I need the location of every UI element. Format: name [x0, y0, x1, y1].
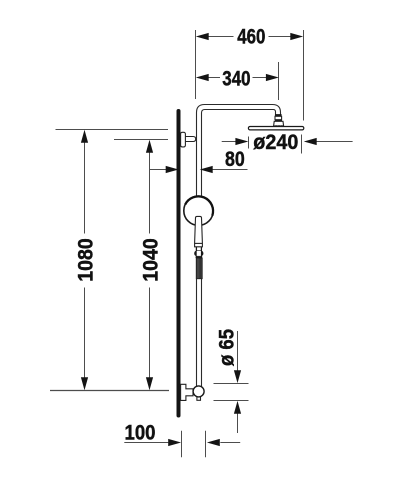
dimension 100: [124, 421, 240, 457]
baseline bottom: [50, 390, 169, 392]
dimension ø65: [216, 329, 242, 433]
dimension 1040: [139, 140, 162, 390]
extension line head right lower (ø240): [301, 135, 303, 154]
hose coupling lower band: [196, 256, 203, 258]
extension line arm right (right of 340): [278, 62, 280, 100]
extension line riser top (left of 460/340): [195, 30, 197, 99]
dimension 80: [149, 148, 248, 173]
hose coupling neck: [196, 247, 201, 251]
wall bar (shower riser rail): [177, 111, 181, 416]
shower head connector nut: [274, 121, 284, 127]
extension line 1040 top: [114, 139, 168, 141]
shower head connector lower band: [275, 120, 282, 122]
extension line valve top (ø65): [214, 383, 249, 385]
svg-text:80: 80: [225, 148, 245, 171]
svg-text:460: 460: [237, 26, 265, 49]
hand shower holder circle: [184, 196, 213, 225]
riser pipe and shower arm inner contour: [202, 110, 276, 388]
extension line valve bottom (ø65): [214, 400, 249, 402]
dimension 1080: [74, 130, 97, 390]
extension line 1080 top: [56, 129, 169, 131]
shower head disc: [248, 127, 303, 130]
valve bracket: [181, 384, 193, 400]
svg-text:1080: 1080: [74, 238, 97, 282]
svg-text:ø240: ø240: [253, 131, 298, 154]
dimension ø240: [222, 131, 353, 154]
valve knob nub: [197, 396, 201, 400]
svg-text:1040: 1040: [139, 238, 162, 282]
wall flange connector pipe: [185, 137, 196, 142]
svg-text:ø 65: ø 65: [216, 329, 239, 366]
dimension 460: [196, 26, 303, 49]
extension line head right (right of 460): [303, 30, 305, 121]
valve knob circle: [193, 386, 204, 397]
hose coupling ring: [194, 250, 203, 256]
shower head connector joint band: [275, 114, 282, 116]
shower hose segment: [196, 258, 202, 279]
dimension 340: [196, 67, 279, 90]
holder circle shading arc: [185, 196, 213, 215]
wall flange plate: [181, 132, 186, 147]
svg-text:340: 340: [222, 67, 250, 90]
riser pipe and shower arm outer contour: [197, 105, 281, 388]
extension line head left (ø240): [248, 137, 250, 149]
hand shower handle: [195, 216, 203, 246]
svg-text:100: 100: [125, 421, 156, 444]
shower head connector collar: [275, 116, 282, 119]
